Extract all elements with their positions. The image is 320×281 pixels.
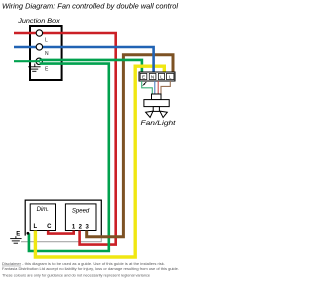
junction box — [30, 26, 62, 80]
ground (junction box) — [28, 64, 40, 72]
wire brown: speed 3 to fan L — [87, 55, 173, 237]
svg-text:N: N — [151, 74, 154, 79]
fan terminal strip — [139, 72, 175, 81]
svg-text:L: L — [45, 38, 48, 44]
fan lead brown — [161, 81, 170, 94]
wire green: JB E to fan E — [40, 60, 142, 72]
svg-text:Wiring Diagram: Fan controlled: Wiring Diagram: Fan controlled by double… — [2, 3, 179, 10]
fan lead red — [157, 81, 159, 94]
svg-text:N: N — [45, 51, 49, 57]
wire green: JB E to wall control E — [29, 64, 109, 251]
wire red: dim C to speed 1 — [48, 231, 73, 234]
earth arrow under fan E — [142, 82, 146, 86]
node: earth dot — [27, 232, 30, 235]
terminal E (junction box) — [36, 58, 42, 64]
terminal L2 (fan) box — [167, 73, 174, 79]
wire yellow: dim L to fan L — [35, 66, 164, 257]
svg-text:L: L — [33, 224, 37, 230]
terminal E (fan) box — [140, 73, 147, 79]
ground (wall control) — [10, 236, 21, 243]
svg-text:Fantasia Distribution Ltd acce: Fantasia Distribution Ltd accept no liab… — [2, 267, 179, 271]
wire red: JB L to speed 2 — [14, 33, 116, 245]
wall control plate — [25, 200, 101, 236]
terminal N (fan) box — [149, 73, 156, 79]
svg-text:Disclaimer - this diagram is t: Disclaimer - this diagram is to be used … — [2, 262, 165, 266]
svg-text:L: L — [160, 74, 163, 79]
fan lead blue — [154, 81, 156, 94]
fan lead green — [142, 81, 153, 94]
svg-text:Dim.: Dim. — [37, 207, 49, 213]
strip letters — [142, 74, 172, 79]
terminal N — [36, 44, 42, 50]
svg-text:These colours are only for gui: These colours are only for guidance and … — [2, 273, 150, 277]
speed switch box — [65, 204, 96, 231]
svg-text:E: E — [16, 232, 20, 238]
wall plate bottom (grey) — [21, 236, 101, 242]
svg-text:L: L — [169, 74, 172, 79]
svg-text:Fan/Light: Fan/Light — [141, 120, 176, 127]
dimmer switch box — [30, 204, 55, 231]
terminal L1 (fan) box — [158, 73, 164, 79]
fan/light unit — [144, 94, 169, 118]
wire green stub (left) — [14, 60, 40, 62]
svg-text:C: C — [47, 224, 52, 230]
svg-text:Junction Box: Junction Box — [17, 18, 61, 25]
wire blue: JB N to fan N — [14, 47, 154, 72]
svg-text:E: E — [142, 74, 145, 79]
svg-text:Speed: Speed — [72, 208, 90, 214]
terminal L — [36, 30, 42, 36]
